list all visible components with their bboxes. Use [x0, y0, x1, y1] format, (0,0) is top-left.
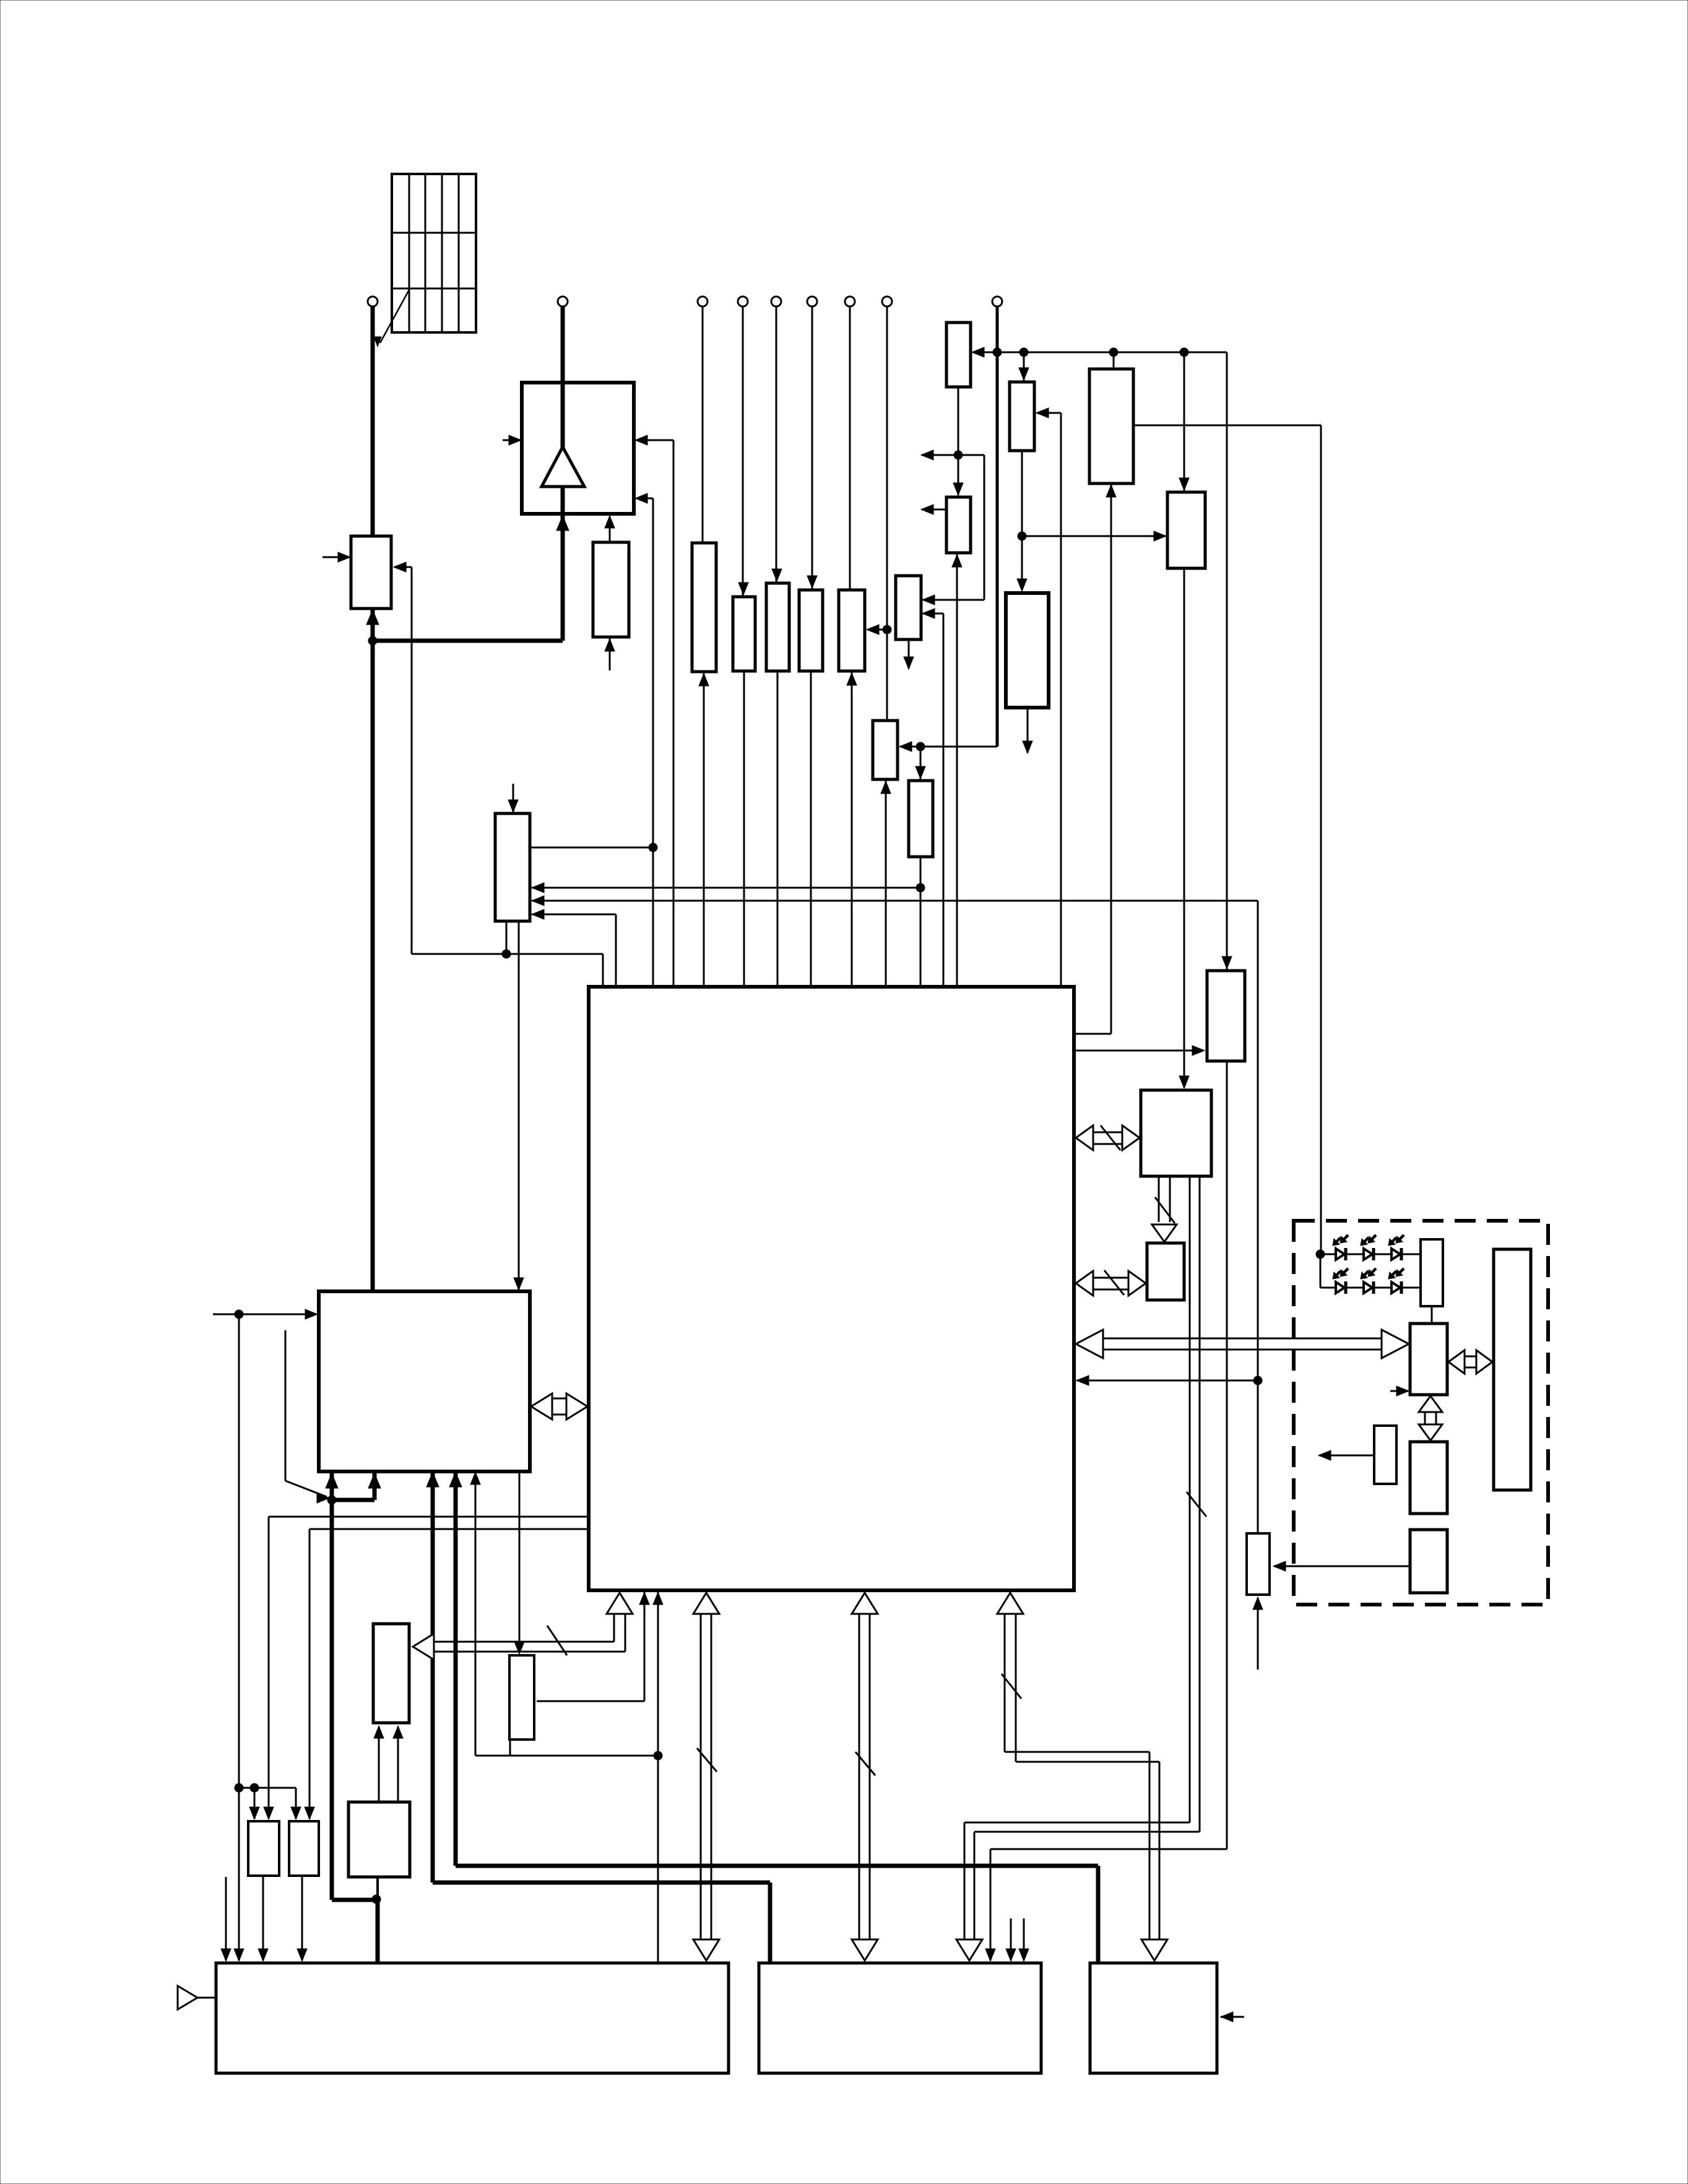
- arrowhead: [899, 742, 912, 752]
- arrowhead: [394, 562, 406, 572]
- arrowhead: [1318, 1450, 1331, 1460]
- wire terminal T8 drop: [886, 305, 888, 722]
- arrowhead thick: [556, 516, 569, 531]
- wire bus drop to box4: [1184, 352, 1185, 491]
- junction: [1109, 348, 1118, 357]
- arrowhead: [1222, 956, 1232, 969]
- wire branch down to box11: [920, 747, 922, 779]
- wire LED driver to B2: [1431, 1305, 1433, 1325]
- box B3: [1410, 1442, 1447, 1514]
- wire box2 to box9: [1021, 449, 1023, 591]
- box5: [946, 497, 971, 553]
- main IC: [589, 987, 1074, 1590]
- wire VBAT terminal drop (thick): [996, 305, 999, 747]
- wire box1 down: [958, 386, 959, 495]
- wire box16 out: [262, 1874, 264, 1961]
- wire CPU to box19: [519, 1473, 521, 1653]
- wire LED row stem: [1320, 1254, 1322, 1288]
- arrowhead: [921, 450, 933, 460]
- wire box17 out: [301, 1874, 303, 1961]
- wire thick second riser (thick): [373, 1473, 377, 1500]
- arrowhead: [428, 1472, 438, 1484]
- middle bottom box: [759, 1963, 1041, 2073]
- arrowhead: [972, 347, 984, 357]
- bus B2 to display: [1448, 1350, 1492, 1374]
- terminal: [992, 297, 1002, 306]
- wire box9 bottom stub: [1027, 706, 1029, 753]
- wire RTC output: [529, 847, 653, 849]
- arrowhead: [1036, 408, 1049, 418]
- wire diagonal into thick node: [285, 1481, 327, 1497]
- arrowhead: [264, 1807, 274, 1819]
- arrowhead: [1273, 1561, 1286, 1571]
- arrowhead: [1179, 1076, 1189, 1088]
- wire y2230 into main IC: [1076, 1380, 1258, 1382]
- flash box: [373, 1624, 409, 1723]
- arrowhead: [639, 1592, 649, 1605]
- wire stub under driver box: [609, 638, 611, 670]
- antenna matching box: [351, 536, 391, 609]
- wire PA right lower ctrl: [638, 498, 653, 500]
- LED D6: [1388, 1268, 1404, 1294]
- wire x1063 main IC to audio: [657, 1592, 659, 1964]
- arrowhead: [1221, 2012, 1233, 2022]
- box3 tall: [1089, 369, 1133, 483]
- wire supply bus drop to box12: [1226, 352, 1228, 969]
- antenna matrix: [392, 174, 476, 332]
- wire x434 corner drop: [268, 1517, 270, 1819]
- arrowhead: [297, 1949, 307, 1961]
- arrowhead: [305, 1807, 314, 1819]
- wire VBAT corner to box10: [900, 746, 997, 748]
- box2: [1010, 382, 1034, 451]
- wire box18 to flash b: [397, 1727, 399, 1803]
- arrowhead: [605, 516, 615, 528]
- wire y2888: [239, 1787, 296, 1789]
- wire out arrow left y735: [922, 454, 958, 456]
- arrowhead: [653, 1592, 663, 1605]
- wire box11 to main IC: [920, 856, 922, 988]
- LED D4: [1333, 1268, 1348, 1294]
- arrowhead: [393, 1726, 403, 1738]
- arrowhead: [922, 595, 935, 605]
- arrowhead thick: [368, 1473, 381, 1488]
- arrowhead: [1076, 1376, 1089, 1385]
- junction: [368, 636, 377, 645]
- arrowhead: [1154, 531, 1166, 541]
- wire box6 bottom stub: [908, 638, 910, 669]
- wire antenna feed (thick): [371, 305, 375, 537]
- bus main IC to middle box: [852, 1593, 878, 1961]
- wire x1714 to main IC: [1060, 413, 1062, 988]
- junction: [372, 1895, 381, 1904]
- arrowhead: [915, 766, 925, 779]
- wire box19 bottom stub: [509, 1738, 511, 1756]
- wire CPU left input: [213, 1314, 316, 1315]
- wire mic stub: [197, 1997, 216, 1999]
- arrowhead: [1019, 368, 1029, 380]
- bus main IC to box14: [1076, 1270, 1146, 1296]
- arrowhead: [922, 609, 935, 618]
- wire ctrl riser x1055: [652, 498, 654, 988]
- dashed module border: [1294, 1221, 1548, 1605]
- RTC box20: [495, 813, 530, 921]
- CPU block: [319, 1291, 530, 1471]
- regulator T5 box: [766, 583, 789, 671]
- bus main IC to audio box: [693, 1593, 719, 1961]
- wire y2748 to box19: [537, 1701, 644, 1702]
- arrowhead: [847, 673, 857, 685]
- wire stub x1654: [1023, 1918, 1025, 1961]
- wire RTC to CPU: [518, 920, 520, 1289]
- box18 codec: [348, 1802, 410, 1877]
- box19: [509, 1655, 534, 1740]
- LED D5: [1361, 1268, 1376, 1294]
- junction: [883, 625, 891, 634]
- arrowhead: [234, 1949, 244, 1961]
- box15: [1247, 1533, 1270, 1595]
- bus CPU to main IC: [531, 1393, 587, 1419]
- arrowhead thick: [426, 1472, 439, 1487]
- wire y735 to corner: [958, 454, 984, 456]
- bus main IC to display module: [1076, 1330, 1409, 1358]
- arrowhead: [368, 610, 378, 622]
- junction: [916, 742, 925, 751]
- junction: [993, 348, 1002, 357]
- junction: [916, 883, 925, 892]
- wire box12 down: [1226, 1060, 1228, 1849]
- junction: [327, 1496, 336, 1504]
- arrowhead: [1019, 1949, 1029, 1961]
- wire thick x1774 drop (thick): [1096, 1866, 1101, 1964]
- wire riser x2032: [1257, 901, 1259, 1535]
- arrowhead: [1253, 1597, 1263, 1610]
- wire x500 corner drop: [309, 1529, 311, 1819]
- wire thick x1244 drop (thick): [768, 1883, 773, 1964]
- wire box4 to box13: [1184, 567, 1185, 1088]
- right bottom box: [1090, 1963, 1217, 2073]
- arrowhead: [1192, 1046, 1205, 1055]
- wire x995 to main IC: [615, 914, 617, 988]
- terminal: [882, 297, 892, 306]
- wire bus drop to box2: [1023, 352, 1025, 381]
- bus main IC to right box: [997, 1593, 1167, 1961]
- arrowhead: [807, 576, 817, 588]
- arrowhead: [327, 1473, 337, 1486]
- regulator boxC: [692, 543, 716, 672]
- wire matching box to junction (thick): [371, 607, 375, 1293]
- wire thick y3041 (thick): [433, 1881, 770, 1885]
- wire x1041 from main IC: [644, 1592, 646, 1701]
- wire into box2 right: [1037, 412, 1061, 414]
- arrowhead: [374, 1726, 384, 1738]
- wire PA left stub: [503, 440, 521, 441]
- junction: [235, 1783, 243, 1792]
- wire ctrl riser x1088: [673, 440, 675, 988]
- wire right box input stub: [1221, 2016, 1244, 2018]
- box B4: [1410, 1530, 1447, 1593]
- box12: [1207, 971, 1245, 1061]
- small box SB: [1374, 1426, 1396, 1484]
- junction: [654, 1751, 662, 1760]
- box10: [873, 721, 898, 779]
- wire terminal T5 drop: [776, 305, 777, 582]
- arrowhead: [514, 1278, 524, 1290]
- wire box18 to flash a: [378, 1727, 380, 1803]
- box13 memory: [1141, 1090, 1211, 1176]
- arrowhead: [258, 1949, 268, 1961]
- junction: [1316, 1250, 1325, 1259]
- wire box3 output: [1133, 425, 1321, 427]
- wire terminal T6 drop: [812, 305, 813, 589]
- microphone symbol: [178, 1986, 197, 2009]
- PA driver box: [593, 542, 629, 637]
- arrowhead: [772, 569, 782, 581]
- wire T5 box to main IC: [777, 670, 779, 988]
- wire T4 box to main IC: [743, 670, 745, 988]
- box4: [1167, 492, 1205, 568]
- arrowhead: [1396, 1386, 1409, 1396]
- wire LED row2: [1320, 1287, 1422, 1289]
- arrowhead: [514, 1642, 524, 1654]
- wire RTC bottom stub: [506, 920, 508, 954]
- wire branch to T7 box: [867, 629, 887, 631]
- box11: [909, 781, 933, 857]
- arrowhead: [1006, 1949, 1016, 1961]
- wire thick x736 drop (thick): [454, 1473, 458, 1866]
- wire y2987 to middle: [990, 1848, 1227, 1850]
- wire x768 drop: [475, 1473, 477, 1756]
- bus B2 to B3: [1419, 1396, 1442, 1441]
- arrowhead: [881, 781, 891, 794]
- terminal: [698, 297, 708, 306]
- wire y2450 to main IC: [269, 1516, 590, 1518]
- wire y2836: [475, 1755, 658, 1757]
- regulator T7 box: [839, 590, 865, 671]
- arrowhead: [953, 483, 963, 495]
- wire arrow into matching box: [394, 566, 412, 568]
- wire supply bus y569: [973, 352, 1227, 353]
- wire x1524 to main IC: [943, 613, 945, 988]
- wire into box6 lower: [923, 613, 943, 615]
- wire T6 box to main IC: [810, 670, 812, 988]
- arrowhead: [221, 1949, 231, 1961]
- junction: [1253, 1376, 1262, 1385]
- audio left box: [216, 1963, 729, 2073]
- wire stub x1633: [1010, 1918, 1012, 1961]
- wire x1590 drop: [984, 455, 985, 600]
- LED D3: [1388, 1235, 1404, 1260]
- wire thick node bridge (thick): [332, 1498, 374, 1502]
- box1 top right: [946, 323, 971, 387]
- wire bus stub to box3: [1113, 352, 1115, 370]
- wire x665 riser: [411, 567, 413, 954]
- wire into box6 upper: [923, 599, 984, 601]
- terminal: [558, 297, 568, 306]
- bus flash to main IC: [413, 1593, 633, 1660]
- arrowhead: [952, 555, 962, 567]
- arrowhead: [1106, 485, 1116, 497]
- wire thick inside PA upper: [561, 383, 565, 448]
- wire RTC input 1: [532, 887, 920, 889]
- junction: [649, 843, 657, 852]
- arrowhead: [1023, 741, 1032, 753]
- arrowhead: [291, 1807, 301, 1819]
- arrowhead: [699, 674, 709, 686]
- display panel: [1494, 1249, 1531, 1490]
- wire thick inside PA lower: [561, 485, 565, 515]
- wire box15 bottom stub: [1257, 1598, 1259, 1670]
- arrowhead: [635, 435, 647, 445]
- wire drop to box17 a: [295, 1788, 297, 1819]
- wire PA right upper ctrl: [638, 440, 673, 441]
- wire RTC top stub: [513, 784, 514, 812]
- arrowhead thick: [366, 610, 379, 625]
- arrowhead: [451, 1472, 461, 1484]
- arrowhead: [921, 505, 933, 514]
- arrowhead: [338, 552, 350, 562]
- box6: [896, 576, 921, 639]
- wire main IC to box3: [1110, 484, 1112, 1034]
- arrowhead: [867, 625, 879, 635]
- wire matching box left stub: [322, 557, 349, 558]
- arrowhead thick: [326, 1473, 338, 1488]
- arrowhead: [317, 1493, 329, 1503]
- wire thick y3014 (thick): [456, 1864, 1098, 1868]
- box17: [289, 1821, 319, 1876]
- arrowhead: [508, 800, 518, 812]
- arrowhead: [305, 1309, 318, 1319]
- wire drop x1600: [990, 1849, 992, 1961]
- wire box5 bottom to main IC: [956, 554, 958, 988]
- bus box13 to middle box: [956, 1176, 1206, 1961]
- wire PA input riser (thick): [561, 485, 565, 641]
- arrowhead: [558, 516, 568, 528]
- wire RF terminal to PA (thick): [561, 305, 565, 448]
- wire thick x699 drop (thick): [431, 1473, 435, 1883]
- arrowhead: [738, 583, 748, 595]
- wire y866 to box4: [1022, 535, 1166, 537]
- arrowhead: [532, 896, 544, 906]
- junction: [1180, 348, 1188, 357]
- amplifier triangle: [542, 447, 584, 487]
- wire terminal T7 drop: [849, 305, 851, 591]
- wire x2134 drop to LED: [1320, 425, 1322, 1254]
- terminal: [845, 297, 855, 306]
- LED D1: [1333, 1235, 1348, 1260]
- PA block: [522, 383, 634, 514]
- wire terminal T3 drop: [702, 305, 704, 544]
- regulator T6 box: [799, 590, 823, 671]
- wire terminal T4 drop: [742, 305, 744, 596]
- antenna pointer: [374, 290, 409, 347]
- wire B4 to box15: [1274, 1566, 1410, 1567]
- wire RTC input 3: [532, 914, 616, 916]
- bus main IC to box13: [1076, 1125, 1140, 1150]
- wire driver to PA: [609, 516, 611, 544]
- wire y1670 into main IC: [1075, 1033, 1111, 1035]
- terminal: [807, 297, 817, 306]
- junction: [502, 950, 511, 958]
- box16: [248, 1821, 279, 1876]
- wire dangling ctrl: [285, 1330, 287, 1481]
- wire x974 to main IC: [602, 954, 604, 988]
- junction: [954, 451, 963, 459]
- terminal: [368, 297, 378, 306]
- arrowhead: [635, 493, 647, 503]
- arrowhead: [249, 1807, 259, 1819]
- wire LED row1: [1320, 1254, 1422, 1255]
- wire box10 to main IC: [885, 781, 887, 988]
- box14 memory: [1147, 1243, 1184, 1300]
- wire main IC to box12: [1075, 1050, 1203, 1052]
- junction: [1018, 532, 1026, 540]
- arrowhead thick: [449, 1472, 462, 1487]
- wire thick y3069 (thick): [332, 1898, 378, 1902]
- wire x365 input: [225, 1877, 227, 1961]
- wire x386 drop: [238, 1314, 240, 1961]
- wire boxC to main IC: [703, 673, 705, 988]
- arrowhead: [532, 883, 544, 893]
- wire thick node riser (thick): [330, 1473, 334, 1900]
- wire thick x610 to audio box (thick): [376, 1900, 380, 1964]
- wire T7 box to main IC: [851, 670, 853, 988]
- LED D2: [1361, 1235, 1376, 1260]
- arrowhead: [532, 909, 544, 919]
- wire box18 bottom: [376, 1876, 379, 1899]
- regulator T4 box: [733, 597, 755, 671]
- bus box13 to box14: [1152, 1176, 1177, 1242]
- wire RTC input 2: [532, 900, 1258, 902]
- arrowhead: [904, 657, 914, 669]
- terminal: [738, 297, 748, 306]
- wire drop to box16 a: [254, 1788, 256, 1819]
- arrowhead: [470, 1472, 480, 1484]
- arrowhead: [985, 1949, 995, 1961]
- junction: [235, 1310, 243, 1319]
- junction: [1019, 348, 1028, 357]
- wire y2470 to main IC: [309, 1528, 590, 1530]
- wire box5 out arrow: [922, 509, 946, 511]
- arrowhead: [509, 435, 521, 445]
- arrowhead: [605, 639, 615, 651]
- wire thick bus to PA (thick): [373, 639, 563, 643]
- terminal: [771, 297, 781, 306]
- display controller B2: [1410, 1324, 1447, 1395]
- wire y1541 horizontal: [412, 953, 603, 955]
- arrowhead: [370, 1473, 379, 1486]
- wire small box left arrow: [1319, 1455, 1374, 1457]
- arrowhead: [1017, 579, 1027, 591]
- LED driver box: [1421, 1239, 1443, 1306]
- junction: [250, 1783, 259, 1792]
- box9: [1006, 593, 1049, 708]
- arrowhead: [1179, 478, 1189, 490]
- wire B2 enable stub: [1390, 1390, 1408, 1392]
